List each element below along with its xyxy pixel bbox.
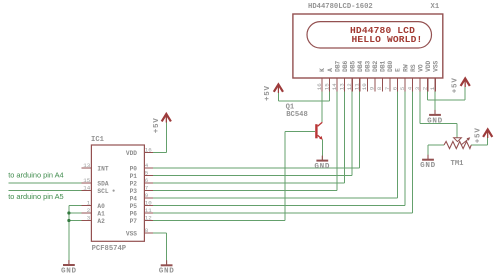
IC1 pin name A0 <box>97 203 105 210</box>
svg-text:DB3: DB3 <box>365 60 372 71</box>
svg-text:1: 1 <box>429 86 436 90</box>
svg-text:8: 8 <box>376 86 383 90</box>
LCD pin name RS <box>410 64 417 72</box>
svg-text:GND: GND <box>314 163 330 171</box>
svg-text:A2: A2 <box>97 218 105 225</box>
svg-text:DB2: DB2 <box>372 60 379 71</box>
IC1 pin 10 (P5) stub <box>144 205 153 207</box>
LCD pin name VSS <box>432 60 439 71</box>
IC1 pin 1 (A0) stub <box>82 205 92 207</box>
ground symbol (IC1 address pins) <box>63 260 75 265</box>
LCD pin 6 (E) stub <box>397 78 399 92</box>
svg-text:3: 3 <box>87 214 91 221</box>
LCD pin number 3 <box>414 86 421 90</box>
net label: to arduino pin A5 (SCL) <box>8 192 63 201</box>
LCD pin number 14 <box>331 83 338 90</box>
LCD pin number 2 <box>422 86 429 90</box>
LCD pin name DB2 <box>372 60 379 71</box>
IC1 pin name A2 <box>97 218 105 225</box>
svg-text:12: 12 <box>145 215 152 222</box>
IC1 pin number 4 <box>145 162 149 169</box>
wire P6 net (IC1 P6 to LCD RS) <box>153 92 413 214</box>
svg-text:10: 10 <box>361 83 368 90</box>
svg-text:P6: P6 <box>130 211 138 218</box>
svg-text:DB6: DB6 <box>342 60 349 71</box>
+5V supply symbol (TM1) <box>483 130 492 139</box>
LCD pin name DB4 <box>357 60 364 71</box>
IC1 pin name P0 <box>130 166 138 173</box>
LCD pin number 9 <box>369 86 376 90</box>
svg-text:6: 6 <box>145 177 149 184</box>
LCD pin 10 (DB3) stub <box>366 78 368 92</box>
wire IC1 VSS to ground <box>153 233 167 264</box>
svg-text:11: 11 <box>354 83 361 90</box>
GND label (IC1 VSS) <box>159 268 175 276</box>
LCD pin name VO <box>417 64 424 72</box>
IC1 pin 2 (A1) stub <box>82 212 92 214</box>
svg-text:+5V: +5V <box>264 85 272 101</box>
IC1 pin name P3 <box>130 188 138 195</box>
svg-text:2: 2 <box>87 207 91 214</box>
IC1 pin number 16 <box>145 147 152 154</box>
svg-text:DB0: DB0 <box>387 60 394 71</box>
IC1 pin number 1 <box>87 199 91 206</box>
IC1 pin name SCL <box>97 188 108 195</box>
svg-text:15: 15 <box>323 83 330 90</box>
ground symbol (Q1 emitter) <box>316 156 328 161</box>
LCD pin number 4 <box>406 86 413 90</box>
svg-text:GND: GND <box>61 267 77 275</box>
wire P1 net (IC1 P1 to LCD DB5) <box>153 92 352 176</box>
wire LCD VSS to ground <box>434 92 436 115</box>
net label: to arduino pin A4 (SDA) <box>8 171 63 180</box>
wire LCD A to +5V <box>278 87 329 102</box>
LCD pin number 5 <box>399 86 406 90</box>
IC1 pin number 5 <box>145 170 149 177</box>
LCD module X1 body <box>293 14 443 78</box>
IC1 pin number 3 <box>87 214 91 221</box>
transistor Q1 BC548 <box>315 122 322 140</box>
LCD pin name A <box>327 68 334 72</box>
wire P2 net (IC1 P2 to LCD DB6) <box>153 92 345 184</box>
svg-text:9: 9 <box>369 86 376 90</box>
junction dot at A2 <box>67 219 70 222</box>
LCD pin 14 (DB7) stub <box>336 78 338 92</box>
value PCF8574P <box>92 245 127 253</box>
IC1 pin name P4 <box>130 196 138 203</box>
svg-text:DB7: DB7 <box>334 60 341 71</box>
LCD pin 13 (DB6) stub <box>344 78 346 92</box>
IC1 pin 3 (A2) stub <box>82 220 92 222</box>
svg-text:VDD: VDD <box>126 150 137 157</box>
svg-text:A: A <box>327 68 334 72</box>
part name HD44780LCD-1602 <box>308 3 373 11</box>
LCD pin name DB0 <box>387 60 394 71</box>
svg-text:SCL: SCL <box>97 188 108 195</box>
designator X1 <box>431 3 440 11</box>
wire SDA net <box>8 182 81 184</box>
IC1 pin 7 (P3) stub <box>144 190 153 192</box>
IC1 pin number 8 <box>145 227 149 234</box>
LCD pin number 13 <box>338 83 345 90</box>
IC1 pin number 6 <box>145 177 149 184</box>
IC1 pin 4 (P0) stub <box>144 167 153 169</box>
GND label (TM1) <box>420 162 436 170</box>
LCD pin 9 (DB2) stub <box>374 78 376 92</box>
wire P5 net (IC1 P5 to LCD RW) <box>153 92 405 206</box>
svg-text:BC548: BC548 <box>286 111 308 119</box>
svg-text:to arduino pin A4: to arduino pin A4 <box>8 171 63 180</box>
IC1 pin number 10 <box>145 200 152 207</box>
LCD pin number 7 <box>384 86 391 90</box>
IC1 pin 15 (SDA) stub <box>82 182 92 184</box>
svg-text:VSS: VSS <box>126 231 137 238</box>
svg-text:14: 14 <box>83 184 90 191</box>
svg-text:5: 5 <box>145 170 149 177</box>
svg-text:GND: GND <box>420 162 436 170</box>
LCD pin number 15 <box>323 83 330 90</box>
svg-text:RW: RW <box>402 64 409 72</box>
LCD pin 15 (A) stub <box>329 78 331 92</box>
svg-text:DB4: DB4 <box>357 60 364 71</box>
IC1 pin 13 (INT) stub <box>82 167 92 169</box>
svg-text:15: 15 <box>83 177 90 184</box>
GND label (LCD VSS) <box>427 117 443 125</box>
wire LCD VDD to +5V <box>428 81 466 100</box>
LCD pin 1 (VSS) stub <box>434 78 436 92</box>
svg-text:K: K <box>319 68 326 72</box>
IC1 pin number 13 <box>83 162 90 169</box>
svg-text:TM1: TM1 <box>451 160 465 168</box>
svg-text:A1: A1 <box>97 211 105 218</box>
svg-text:HD44780LCD-1602: HD44780LCD-1602 <box>308 3 373 11</box>
svg-text:1: 1 <box>87 199 91 206</box>
LCD pin 11 (DB4) stub <box>359 78 361 92</box>
designator Q1 <box>286 104 295 112</box>
LCD pin 2 (VDD) stub <box>427 78 429 92</box>
LCD pin number 11 <box>354 83 361 90</box>
svg-text:PCF8574P: PCF8574P <box>92 245 127 253</box>
LCD pin 3 (VO) stub <box>419 78 421 92</box>
IC1 pin name A1 <box>97 211 105 218</box>
IC1 pin number 14 <box>83 184 90 191</box>
svg-text:P3: P3 <box>130 188 138 195</box>
IC1 pin number 2 <box>87 207 91 214</box>
ground symbol (TM1) <box>422 155 434 160</box>
svg-text:RS: RS <box>410 64 417 72</box>
svg-text:IC1: IC1 <box>91 136 105 144</box>
svg-text:4: 4 <box>145 162 149 169</box>
LCD pin name DB1 <box>380 60 387 71</box>
svg-text:P4: P4 <box>130 196 138 203</box>
IC1 pin name VDD <box>126 150 137 157</box>
svg-text:10: 10 <box>145 200 152 207</box>
IC1 pin 9 (P4) stub <box>144 197 153 199</box>
IC1 pin name VSS <box>126 231 137 238</box>
svg-text:P2: P2 <box>130 181 138 188</box>
svg-text:DB1: DB1 <box>380 60 387 71</box>
wire Q1 emitter to ground <box>321 140 323 160</box>
svg-text:3: 3 <box>414 86 421 90</box>
wire TM1 right to +5V <box>471 132 488 145</box>
IC1 PCF8574P body <box>91 145 144 241</box>
wire TM1 left to ground <box>428 145 444 159</box>
svg-text:VDD: VDD <box>425 60 432 71</box>
junction dot at A1 <box>67 211 70 214</box>
LCD pin number 16 <box>316 83 323 90</box>
IC1 pin 12 (P7) stub <box>144 220 153 222</box>
svg-text:to arduino pin A5: to arduino pin A5 <box>8 192 63 201</box>
svg-text:14: 14 <box>331 83 338 90</box>
wire P0 net (IC1 P0 to LCD DB4) <box>153 92 360 169</box>
svg-text:P1: P1 <box>130 173 138 180</box>
IC1 pin 6 (P2) stub <box>144 182 153 184</box>
svg-text:VO: VO <box>417 64 424 72</box>
svg-text:2: 2 <box>422 86 429 90</box>
GND label (IC1 address pins) <box>61 267 77 275</box>
svg-text:GND: GND <box>159 268 175 276</box>
IC1 pin number 11 <box>145 207 152 214</box>
ground symbol (IC1 VSS) <box>161 260 173 265</box>
+5V label (IC1 VDD) <box>153 118 161 134</box>
LCD pin name DB7 <box>334 60 341 71</box>
LCD pin name E <box>395 68 402 72</box>
LCD pin name RW <box>402 64 409 72</box>
svg-text:VSS: VSS <box>432 60 439 71</box>
IC1 pin number 15 <box>83 177 90 184</box>
IC1 pin 16 (VDD) stub <box>144 152 153 154</box>
LCD pin 8 (DB1) stub <box>381 78 383 92</box>
designator TM1 <box>451 160 465 168</box>
IC1 pin name P2 <box>130 181 138 188</box>
svg-text:X1: X1 <box>431 3 440 11</box>
IC1 pin number 12 <box>145 215 152 222</box>
svg-text:12: 12 <box>346 83 353 90</box>
svg-text:4: 4 <box>406 86 413 90</box>
svg-text:13: 13 <box>83 162 90 169</box>
svg-text:5: 5 <box>399 86 406 90</box>
svg-text:A0: A0 <box>97 203 105 210</box>
IC1 pin 5 (P1) stub <box>144 175 153 177</box>
IC1 pin 11 (P6) stub <box>144 212 153 214</box>
svg-text:11: 11 <box>145 207 152 214</box>
svg-text:HELLO WORLD!: HELLO WORLD! <box>352 34 423 45</box>
svg-text:+5V: +5V <box>452 77 460 93</box>
designator IC1 <box>91 136 105 144</box>
wire LCD VO to TM1 wiper <box>420 92 457 138</box>
+5V label (TM1) <box>475 127 483 143</box>
svg-text:E: E <box>395 68 402 72</box>
LCD screen text line 2 <box>352 34 423 45</box>
svg-text:DB5: DB5 <box>349 60 356 71</box>
wire P4 net (IC1 P4 to LCD E) <box>153 92 398 199</box>
svg-text:8: 8 <box>145 227 149 234</box>
svg-text:P7: P7 <box>130 218 138 225</box>
svg-text:7: 7 <box>145 185 149 192</box>
wire P3 net (IC1 P3 to LCD DB7) <box>153 92 337 191</box>
IC1 pin 8 (VSS) stub <box>144 232 153 234</box>
IC1 pin 14 (SCL) stub <box>82 190 92 192</box>
svg-text:GND: GND <box>427 117 443 125</box>
wire SCL net <box>8 190 81 192</box>
LCD pin 4 (RS) stub <box>412 78 414 92</box>
svg-text:9: 9 <box>145 192 149 199</box>
LCD pin name DB3 <box>365 60 372 71</box>
LCD pin number 10 <box>361 83 368 90</box>
LCD pin name DB6 <box>342 60 349 71</box>
LCD pin number 6 <box>391 86 398 90</box>
trimmer potentiometer TM1 <box>444 137 471 148</box>
IC1 pin number 9 <box>145 192 149 199</box>
value BC548 <box>286 111 308 119</box>
svg-text:7: 7 <box>384 86 391 90</box>
svg-text:P0: P0 <box>130 166 138 173</box>
LCD pin name VDD <box>425 60 432 71</box>
svg-text:16: 16 <box>145 147 152 154</box>
+5V supply symbol (LCD backlight anode) <box>274 84 283 93</box>
svg-text:13: 13 <box>338 83 345 90</box>
svg-text:SDA: SDA <box>97 181 108 188</box>
IC1 pin name P5 <box>130 203 138 210</box>
LCD screen bezel <box>307 22 432 48</box>
IC1 pin number 7 <box>145 185 149 192</box>
SCL clock mark <box>113 190 115 192</box>
wire A0/A1/A2 to ground <box>69 206 82 265</box>
wire IC1 VDD to +5V <box>153 116 166 153</box>
LCD pin 7 (DB0) stub <box>389 78 391 92</box>
IC1 pin name SDA <box>97 181 108 188</box>
svg-text:INT: INT <box>97 166 108 173</box>
wire LCD K to Q1 collector <box>321 92 323 123</box>
LCD pin 16 (K) stub <box>321 78 323 92</box>
svg-text:16: 16 <box>316 83 323 90</box>
IC1 pin name P1 <box>130 173 138 180</box>
IC1 pin name INT <box>97 166 108 173</box>
LCD pin 5 (RW) stub <box>404 78 406 92</box>
+5V supply symbol (LCD VDD) <box>461 79 470 88</box>
+5V label (LCD backlight anode) <box>264 85 272 101</box>
LCD pin 12 (DB5) stub <box>351 78 353 92</box>
svg-text:P5: P5 <box>130 203 138 210</box>
IC1 pin name P6 <box>130 211 138 218</box>
+5V label (LCD VDD) <box>452 77 460 93</box>
IC1 pin name P7 <box>130 218 138 225</box>
ground symbol (LCD VSS) <box>429 110 441 115</box>
LCD pin number 1 <box>429 86 436 90</box>
+5V supply symbol (IC1 VDD) <box>162 114 171 123</box>
GND label (Q1 emitter) <box>314 163 330 171</box>
LCD screen text line 1 <box>350 25 415 36</box>
svg-text:6: 6 <box>391 86 398 90</box>
LCD pin name K <box>319 68 326 72</box>
LCD pin name DB5 <box>349 60 356 71</box>
LCD pin number 8 <box>376 86 383 90</box>
LCD pin number 12 <box>346 83 353 90</box>
svg-text:+5V: +5V <box>153 118 161 134</box>
svg-text:+5V: +5V <box>475 127 483 143</box>
wire P7 net (IC1 P7 to Q1 base) <box>153 131 315 220</box>
